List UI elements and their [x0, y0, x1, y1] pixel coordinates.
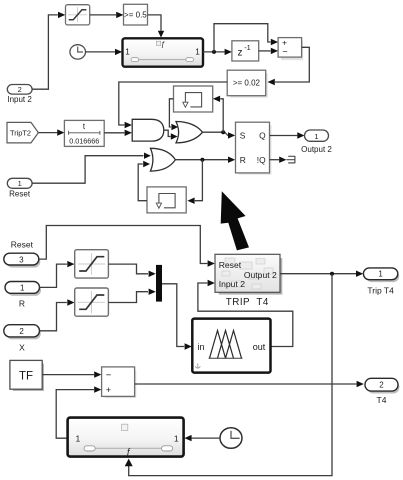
svg-text:TripT2: TripT2: [10, 128, 31, 137]
wire mux out down to fuzzy in: [162, 284, 184, 347]
svg-text:1: 1: [195, 48, 200, 57]
wire sample-time to AND lower input: [104, 132, 124, 134]
wire branch up to L1 input: [220, 99, 223, 133]
wire branch to sum + input: [214, 24, 271, 52]
svg-text:R: R: [19, 298, 25, 308]
wire L1 output to OR1 upper input: [169, 99, 173, 127]
svg-text:T4: T4: [377, 395, 387, 405]
svg-text:2: 2: [19, 327, 24, 336]
input port Input 2: [7, 85, 32, 105]
input port 1 (R): [5, 282, 41, 309]
wire Q to Output 2: [270, 135, 298, 137]
wire Input2 to saturation: [32, 15, 58, 89]
fuzzy logic block F1: [192, 319, 270, 373]
mux M1: [156, 265, 162, 302]
svg-text:1: 1: [18, 179, 22, 188]
svg-text:Reset: Reset: [219, 260, 242, 270]
wire >=0.02 out to AND upper input: [119, 82, 227, 125]
terminator T1: [286, 156, 295, 163]
wire subsystem2 out to SUM2 plus: [56, 390, 94, 439]
svg-text:1: 1: [20, 284, 25, 293]
unit delay z-1: [232, 41, 259, 61]
wire OR1 out to S input with junction: [203, 132, 229, 135]
clock CLK2: [220, 428, 242, 449]
sum block SUM2: [102, 367, 137, 398]
OR gate OR2: [150, 148, 175, 171]
AND gate: [132, 119, 164, 141]
subsystem TRIP T4: [215, 254, 282, 294]
wire trigger from J4 down and into subsystem bottom: [129, 274, 332, 476]
loop block L2 (flipped, input right): [147, 187, 186, 213]
wire Reset to OR2 upper input: [32, 156, 143, 184]
relational operator >= 0.5: [124, 4, 148, 25]
svg-text:-1: -1: [244, 45, 250, 52]
svg-text:Output 2: Output 2: [244, 270, 277, 280]
svg-text:Input 2: Input 2: [7, 95, 32, 104]
wire z-1 to sum - input: [259, 50, 271, 52]
svg-text:−: −: [106, 370, 112, 381]
svg-text:1: 1: [174, 434, 179, 444]
svg-text:TF: TF: [19, 370, 33, 382]
wire branch down to L2 input: [195, 160, 203, 201]
loop block L1 (flipped, input right): [174, 86, 213, 112]
goto tag TripT2: [7, 122, 38, 142]
node J2: [221, 130, 225, 134]
svg-text:+: +: [106, 385, 111, 395]
output port Trip T4: [363, 268, 399, 296]
svg-text:2: 2: [379, 381, 384, 390]
wire L2 output to OR2 lower input: [138, 164, 147, 201]
svg-text:ƒ: ƒ: [161, 39, 165, 48]
svg-text:Trip T4: Trip T4: [367, 285, 394, 295]
svg-text:Input 2: Input 2: [219, 279, 246, 289]
wire subsystem out to z-1 with junction: [203, 51, 225, 53]
svg-text:Q: Q: [259, 131, 266, 141]
wire SUM2 out to T4 port: [135, 383, 357, 385]
clock CLK1: [70, 45, 86, 59]
subsystem U1 (top): [123, 38, 204, 66]
subsystem U3 (bottom, flipped): [68, 418, 184, 457]
svg-text:2: 2: [18, 85, 22, 94]
wire !Q to terminator: [270, 159, 280, 161]
sample time block t/0.016666: [64, 120, 104, 146]
annotation big arrow: [221, 191, 249, 250]
input port Reset (1): [7, 178, 32, 198]
svg-text:TRIP T4: TRIP T4: [226, 297, 269, 308]
wire SAT2 to mux input 1: [108, 264, 148, 274]
relational operator >= 0.02: [227, 70, 268, 98]
svg-text:0.016666: 0.016666: [69, 136, 99, 145]
svg-text:Reset: Reset: [9, 190, 31, 199]
svg-text:1: 1: [378, 270, 383, 279]
svg-text:X: X: [19, 343, 25, 353]
saturation block SAT3: [75, 288, 109, 316]
wire port1 to SAT2: [40, 264, 67, 287]
wire SAT3 to mux input 2: [108, 292, 148, 303]
svg-text:out: out: [253, 342, 266, 352]
svg-text:3: 3: [19, 255, 24, 264]
node J1: [212, 50, 216, 54]
svg-text:S: S: [240, 131, 246, 141]
svg-text:z: z: [238, 47, 243, 58]
node J3: [200, 158, 204, 162]
OR gate OR1: [176, 122, 203, 143]
svg-text:−: −: [282, 47, 287, 57]
svg-text:Output 2: Output 2: [301, 145, 332, 154]
wire TRIP Output2 to Trip T4 port with junction: [280, 273, 356, 275]
SR flip-flop U2: [236, 122, 272, 175]
wire fuzzy out back to TRIP Input 2: [198, 283, 293, 347]
svg-text:in: in: [198, 342, 205, 352]
sum block SUM1: [278, 38, 303, 61]
input port 3: [4, 253, 41, 267]
wire TF to SUM2 minus: [42, 374, 94, 376]
wire CLK2 to subsystem right input: [192, 437, 220, 439]
svg-text:1: 1: [76, 434, 81, 444]
svg-text:>= 0.5: >= 0.5: [124, 11, 147, 20]
svg-text:1: 1: [125, 48, 130, 57]
wire OR2 out to R input with junction: [175, 159, 228, 161]
wire AND out to OR1 lower input: [164, 130, 171, 136]
output port T4: [365, 378, 399, 405]
block TF: [10, 360, 44, 391]
wire SAT1 to >=0.5: [90, 14, 117, 16]
wire port3 to TRIP Reset input: [39, 226, 208, 264]
input port 2 (X): [4, 325, 41, 353]
wire TripT2 to sample-time block: [38, 132, 57, 134]
saturation block SAT2: [75, 250, 109, 278]
svg-text:ƒ: ƒ: [126, 447, 131, 457]
node J4: [330, 272, 334, 276]
wire >=0.5 down to subsystem top: [148, 15, 162, 31]
wire SUM1 out to >=0.02 (right side input): [275, 47, 309, 82]
svg-text:R: R: [240, 155, 246, 165]
svg-text:!Q: !Q: [257, 155, 266, 165]
wire CLK1 to subsystem: [86, 51, 116, 53]
svg-text:>= 0.02: >= 0.02: [233, 79, 261, 88]
wire port2 to SAT3: [40, 303, 67, 331]
svg-text:1: 1: [314, 132, 318, 141]
saturation block SAT1: [66, 5, 90, 25]
output port Output 2: [301, 130, 332, 154]
svg-text:Reset: Reset: [11, 239, 34, 249]
